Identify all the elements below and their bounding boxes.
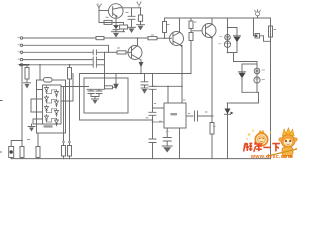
svg-text:www.dzsc.com: www.dzsc.com [250,154,293,160]
